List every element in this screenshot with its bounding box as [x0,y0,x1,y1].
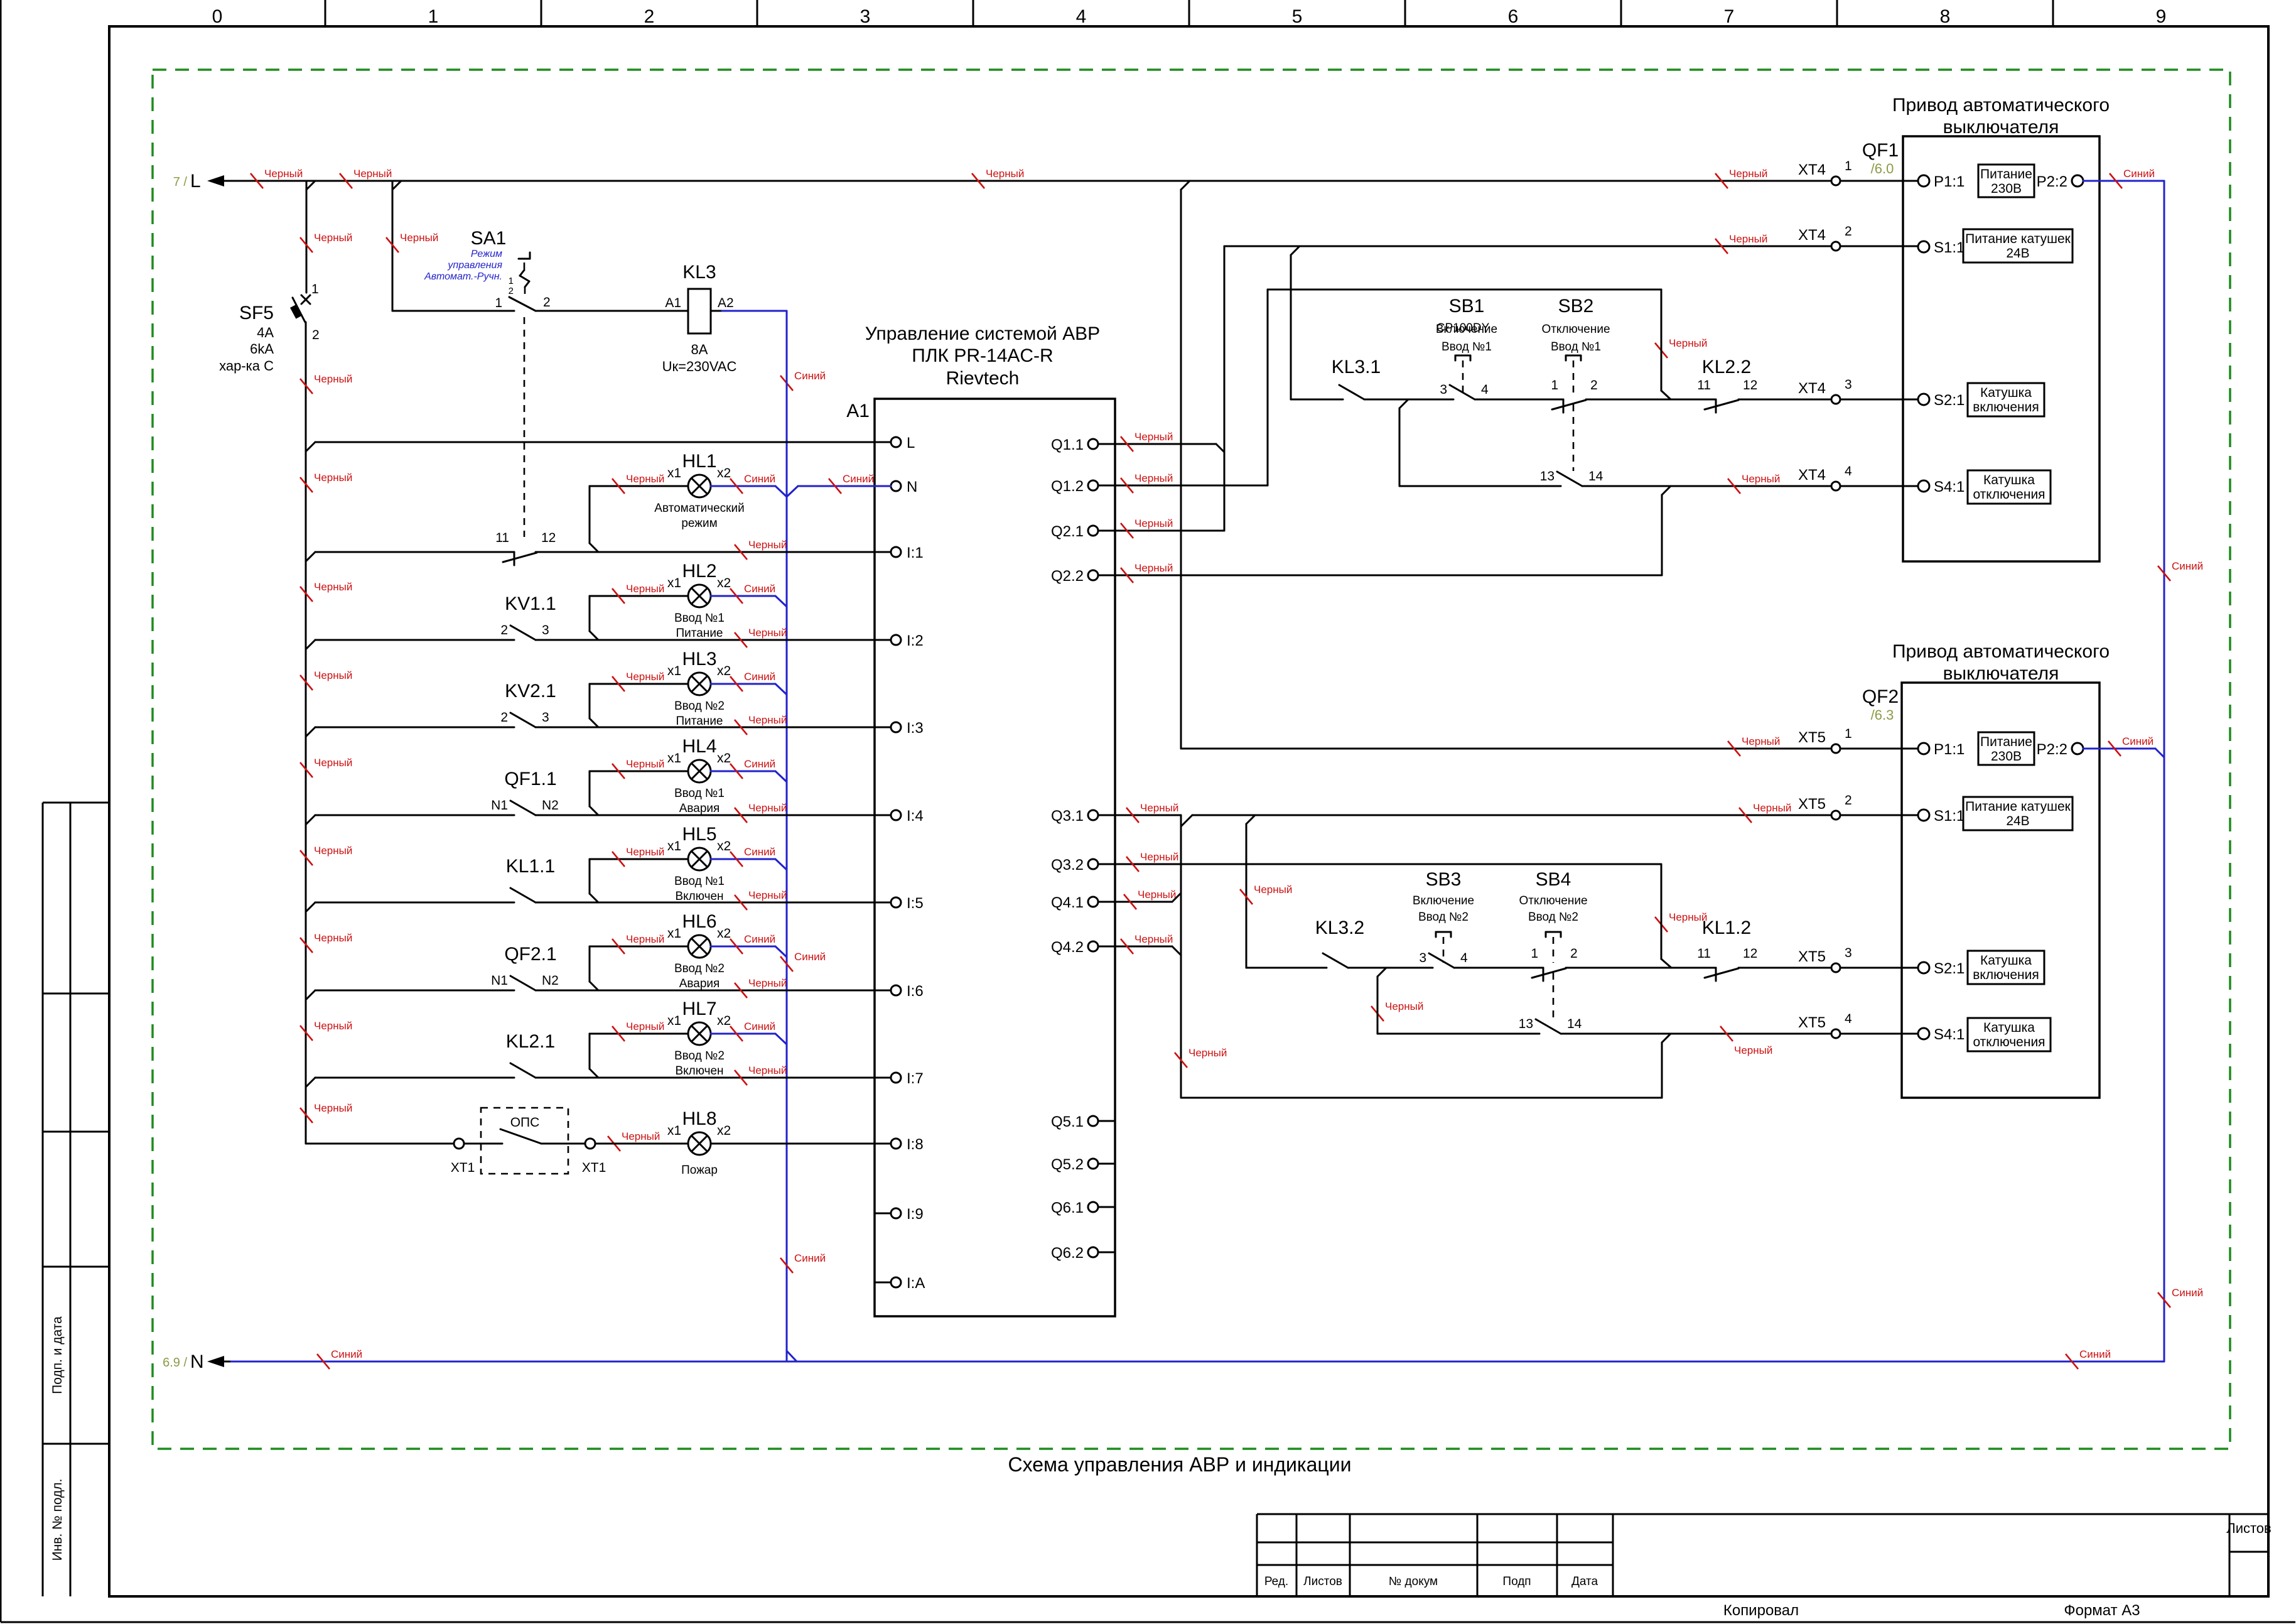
svg-text:1: 1 [1551,378,1558,392]
breaker drive QF2 box [1862,683,2099,1098]
breaker drive QF1 box [1862,136,2099,561]
svg-text:Синий: Синий [2172,560,2203,572]
PLC pin Q5.1 [1051,1113,1115,1130]
wire HL1 branch [590,486,891,552]
wire label Черный before XT5:2 [1739,802,1791,823]
svg-text:L: L [907,435,915,452]
wire XT4:1 to QF1 [1840,180,1918,182]
wire XT4:2 to QF1 [1840,246,1918,247]
QF2 pin P1:1 [1918,741,1965,758]
svg-text:Черный: Черный [748,1064,787,1076]
svg-text:14: 14 [1567,1017,1582,1031]
svg-text:Черный: Черный [626,473,664,485]
svg-text:2: 2 [1590,378,1598,392]
svg-text:А1: А1 [665,296,681,310]
terminal XT4:1 [1798,159,1852,185]
svg-text:Листов: Листов [1303,1575,1342,1588]
wire lower loop x=1881 y=1748 x=2647 [1181,815,1671,1098]
contact KL3.2 [1315,918,1364,968]
wire SB3 to SB4 [1454,967,1543,969]
wire Q2.1 row [1098,530,1224,532]
svg-text:хар-ка С: хар-ка С [219,358,274,374]
svg-text:x1: x1 [667,926,681,941]
wire I row y=1298 [306,815,891,824]
contact SA1 aux (11-12) [495,531,556,565]
wire label Черный on I row y=1298 [735,802,787,823]
wire label Черный on HL3 row [612,671,664,691]
svg-text:Ввод №2: Ввод №2 [674,700,725,713]
wire KL1.2 to XT5:3 [1738,967,1831,969]
svg-text:Синий: Синий [744,583,775,595]
svg-text:3: 3 [1845,946,1852,960]
svg-text:Включение: Включение [1436,323,1497,336]
svg-text:управления: управления [447,260,502,271]
wire HL6 branch [590,946,787,990]
svg-text:x1: x1 [667,664,681,678]
svg-text:Черный: Черный [314,232,352,244]
wire label Черный on riser x=1985 [1240,884,1292,904]
svg-text:N1: N1 [491,798,508,813]
svg-text:3: 3 [860,6,871,27]
svg-text:Черный: Черный [353,168,392,180]
svg-text:QF2: QF2 [1862,686,1899,707]
wire label Черный on Q4.1 row [1124,889,1176,909]
contact KL2.1 (-) [506,1031,555,1078]
svg-text:1: 1 [1845,727,1852,741]
wire label Синий on HL5 row [730,846,775,867]
terminal XT5:1 [1798,727,1852,753]
contact SB4 13-14 [1519,1017,1582,1034]
svg-text:7: 7 [1724,6,1735,27]
svg-text:Авария: Авария [679,977,720,990]
wire HL3 branch [590,684,787,727]
svg-text:Катушка: Катушка [1980,386,2032,400]
svg-text:P2:2: P2:2 [2037,741,2067,758]
wire SA1 riser x=625 [392,181,394,311]
PLC pin Q3.2 [1051,857,1098,874]
wire QF2 P2:2 to blue riser [2083,749,2164,757]
svg-text:Синий: Синий [744,933,775,945]
svg-text:Синий: Синий [331,1348,362,1360]
wire XT4:4 to QF1 [1840,485,1918,487]
PLC pin I:9 [875,1206,924,1223]
svg-text:Rievtech: Rievtech [946,368,1020,389]
PLC pin Q5.2 [1051,1156,1115,1173]
QF1 pin S4:1 [1918,479,1965,495]
svg-text:I:4: I:4 [907,808,924,825]
wire label Черный on HL1 row [612,473,664,494]
PLC pin Q6.1 [1051,1199,1115,1216]
wire I row y=879 [306,552,891,561]
svg-text:I:7: I:7 [907,1070,924,1087]
svg-text:Черный: Черный [1135,517,1173,529]
svg-text:HL6: HL6 [682,911,716,932]
svg-text:Синий: Синий [744,671,775,683]
svg-text:HL1: HL1 [682,451,716,472]
left trim strip cells [43,803,109,1596]
svg-text:N: N [907,479,917,495]
wire label Черный before XT5:1 [1728,735,1780,756]
svg-text:P1:1: P1:1 [1934,173,1965,190]
wire label Черный on HL2 row [612,583,664,604]
wire N bus vertical x=1253 (blue) [786,311,788,1361]
svg-text:Ввод №2: Ввод №2 [1418,911,1469,924]
svg-text:Питание катушек: Питание катушек [1965,799,2071,814]
fire alarm contact OPS (dashed box) [481,1108,568,1174]
svg-text:x1: x1 [667,1014,681,1028]
wire OPS to XT1 right [541,1143,585,1145]
svg-text:4А: 4А [257,325,274,340]
svg-text:Ввод №1: Ввод №1 [674,787,725,800]
svg-text:XT1: XT1 [451,1161,475,1175]
button SB3 [1413,869,1474,968]
title block table [1257,1514,2268,1596]
svg-text:230В: 230В [1991,749,2022,764]
PLC pin I:3 [891,720,924,737]
svg-text:режим: режим [681,517,717,530]
svg-text:Q1.2: Q1.2 [1051,478,1084,495]
svg-text:Q4.1: Q4.1 [1051,894,1084,911]
wire label Черный on I row y=1158 [735,714,787,735]
svg-text:Черный: Черный [626,933,664,945]
svg-text:XT4: XT4 [1798,161,1826,178]
mechanical link dashed SB2 to 13-14 [1573,404,1575,471]
svg-text:XT5: XT5 [1798,729,1826,746]
svg-text:№ докум: № докум [1389,1575,1438,1588]
wire Q4.1 row [1098,893,1181,902]
svg-text:Пожар: Пожар [681,1164,718,1177]
svg-text:x2: x2 [717,751,731,766]
wire label Синий on riser upper [2158,560,2203,581]
wire L input row y=704 [306,442,891,451]
PLC pin I:5 [891,895,924,912]
QF1 pin P2:2 [2037,173,2083,190]
svg-text:XT4: XT4 [1798,227,1826,244]
svg-text:Черный: Черный [314,581,352,593]
wire Q3.1 to XT5:2 row y=1298 [1098,815,1831,826]
svg-text:KL1.2: KL1.2 [1702,918,1751,938]
wire I row y=1577 [306,990,891,999]
QF1 function box Катушка включения [1968,383,2044,416]
svg-text:XT4: XT4 [1798,380,1826,397]
terminal XT1 right [582,1139,606,1175]
svg-text:Синий: Синий [2122,735,2153,747]
svg-text:N1: N1 [491,973,508,988]
wire KL3.2 to SB3 [1348,968,1433,977]
svg-text:Питание: Питание [1980,167,2032,181]
svg-text:выключателя: выключателя [1943,663,2059,684]
svg-text:A1: A1 [846,401,870,421]
svg-text:11: 11 [1697,946,1711,961]
svg-text:Катушка: Катушка [1980,953,2032,968]
svg-text:Q6.2: Q6.2 [1051,1245,1084,1262]
svg-text:Ввод №2: Ввод №2 [1528,911,1578,924]
svg-text:Синий: Синий [744,473,775,485]
svg-text:KL3.2: KL3.2 [1315,918,1364,938]
svg-text:Синий: Синий [744,846,775,858]
svg-text:Режим: Режим [471,249,502,259]
wire label Черный on SF5 bus seg4 [300,581,352,602]
svg-text:Включен: Включен [675,1064,723,1078]
svg-text:SF5: SF5 [239,303,274,323]
svg-text:Черный: Черный [622,1130,660,1142]
svg-text:Синий: Синий [794,1252,826,1264]
svg-text:x2: x2 [717,1014,731,1028]
terminal XT5:3 [1798,946,1852,972]
svg-text:3: 3 [542,623,549,637]
indicator lamp HL4 [667,736,731,815]
wire label Черный on SF5 bus seg8 [300,932,352,953]
QF2 pin S2:1 [1918,960,1965,977]
svg-text:Q1.1: Q1.1 [1051,436,1084,453]
svg-text:S1:1: S1:1 [1934,808,1965,825]
relay coil KL3 [662,262,737,374]
svg-text:Черный: Черный [1135,431,1173,443]
wire label Черный on Q3.2 row [1126,851,1178,872]
PLC pin Q6.2 [1051,1245,1115,1262]
svg-text:HL4: HL4 [682,736,716,757]
svg-text:Черный: Черный [314,1102,352,1114]
svg-text:Черный: Черный [748,539,787,551]
svg-text:12: 12 [541,531,556,545]
wire Q2.2 row to XT4:4 node [1098,495,1662,575]
svg-text:Q2.1: Q2.1 [1051,523,1084,540]
wire label Черный on SF5 bus seg9 [300,1020,352,1041]
svg-text:HL8: HL8 [682,1108,716,1129]
svg-text:Ввод №1: Ввод №1 [1442,340,1492,354]
svg-text:6: 6 [1508,6,1519,27]
svg-text:Ред.: Ред. [1264,1575,1288,1588]
wire SB1 to SB2 [1475,399,1563,401]
svg-text:Черный: Черный [748,977,787,989]
wire label Черный on riser x=2194 [1371,1000,1423,1021]
wire SA1 to KL3 coil [536,310,688,312]
svg-text:3: 3 [542,710,549,725]
wire Q1.2 loop over buttons [1098,290,1671,485]
PLC pin N [891,479,917,495]
svg-text:3: 3 [1419,951,1426,965]
wire L riser x=1881 to XT5:1 [1181,190,1831,749]
svg-text:230В: 230В [1991,181,2022,196]
wire XT4:2 row y=392 [1224,246,1831,255]
terminal XT5:2 [1798,793,1852,820]
svg-text:Синий: Синий [843,473,874,485]
wire label Черный on HL6 row [612,933,664,954]
svg-text:9: 9 [2156,6,2167,27]
svg-text:x2: x2 [717,1123,731,1138]
terminal XT4:3 [1798,377,1852,404]
svg-text:I:8: I:8 [907,1136,924,1153]
svg-text:6kА: 6kА [250,341,274,357]
svg-text:включения: включения [1973,968,2039,982]
svg-text:x1: x1 [667,576,681,590]
svg-text:Включение: Включение [1413,894,1474,907]
wire 13-14 to XT4:4 [1582,486,1831,495]
wire label Черный on SF5 bus seg3 [300,472,352,492]
svg-text:1: 1 [311,282,319,296]
svg-text:x1: x1 [667,466,681,480]
wire label Черный on SA1 riser [386,232,438,252]
indicator lamp HL5 [667,824,731,903]
svg-text:Черный: Черный [1188,1047,1227,1059]
wire label Синий on N wire right [829,473,874,494]
svg-text:SB1: SB1 [1449,296,1485,317]
svg-text:Управление системой АВР: Управление системой АВР [865,323,1100,344]
svg-text:Черный: Черный [1729,168,1767,180]
svg-text:XT5: XT5 [1798,1014,1826,1031]
contact KL3.1 [1332,357,1381,399]
wire label Черный on HL4 row [612,758,664,779]
svg-text:Питание: Питание [676,715,723,728]
svg-text:S4:1: S4:1 [1934,1026,1965,1043]
wire label Черный on SF5 bus seg5 [300,669,352,690]
indicator lamp HL7 [667,999,731,1078]
svg-text:Дата: Дата [1571,1575,1598,1588]
QF1 function box Катушка отключения [1968,470,2051,504]
svg-text:Черный: Черный [1742,473,1780,485]
wire label Черный on HL7 row [612,1020,664,1041]
svg-text:x2: x2 [717,926,731,941]
svg-text:Черный: Черный [626,1020,664,1032]
PLC pin I:2 [891,632,924,649]
svg-text:x2: x2 [717,664,731,678]
svg-text:1: 1 [509,276,514,286]
svg-text:Копировал: Копировал [1723,1602,1799,1619]
wire label Синий on N bus bottom junction [780,1252,826,1273]
wire SB4 to KL1.2 [1566,967,1716,969]
svg-text:SB2: SB2 [1558,296,1594,317]
svg-text:I:A: I:A [907,1275,925,1292]
QF1 pin S2:1 [1918,392,1965,409]
svg-text:Синий: Синий [794,370,826,382]
wire label Черный before XT5:4 [1720,1026,1772,1056]
wire label Черный on I row y=1019 [735,627,787,647]
svg-text:А2: А2 [718,296,734,310]
svg-text:Синий: Синий [744,758,775,770]
wire QF1 P2:2 to blue riser [2083,180,2164,182]
wire blue N return riser x=3447 [2164,181,2165,1361]
PLC pin Q4.1 [1051,894,1098,911]
svg-text:11: 11 [495,531,509,545]
svg-text:Инв. № подл.: Инв. № подл. [50,1479,65,1561]
title block texts [1264,1520,2272,1588]
svg-text:5: 5 [1292,6,1303,27]
wire label Синий on N row right [2066,1348,2111,1369]
indicator lamp HL8 [667,1108,731,1177]
wire 13-14 bottom row y=1646 [1377,977,1539,1034]
svg-text:Ввод №2: Ввод №2 [674,962,725,975]
wire label Синий at QF2 P2:2 [2108,735,2153,756]
QF1 drive header [1892,95,2110,138]
wire HL2 branch [590,596,787,640]
svg-text:HL5: HL5 [682,824,716,845]
svg-text:Подп: Подп [1502,1575,1531,1588]
svg-text:2: 2 [1845,793,1852,808]
svg-text:Черный: Черный [314,845,352,857]
PLC pin I:8 [891,1136,924,1153]
mechanical link dashed SA1 to contact 11-12 [524,317,525,537]
svg-text:Q5.1: Q5.1 [1051,1113,1084,1130]
wire L row y=288 [231,181,1831,190]
svg-text:Q3.1: Q3.1 [1051,808,1084,825]
svg-text:QF1.1: QF1.1 [504,769,556,789]
svg-text:Q5.2: Q5.2 [1051,1156,1084,1173]
svg-text:Ввод №1: Ввод №1 [1551,340,1601,354]
svg-text:I:9: I:9 [907,1206,924,1223]
svg-text:I:3: I:3 [907,720,924,737]
svg-text:Авария: Авария [679,802,720,815]
svg-text:Привод автоматического: Привод автоматического [1892,95,2110,116]
svg-text:KL3: KL3 [682,262,716,283]
PLC title text [865,323,1100,389]
svg-text:Черный: Черный [264,168,303,180]
wire HL7 branch [590,1034,787,1078]
left strip label Инв. № подл. [50,1479,65,1561]
PLC pin I:A [875,1275,925,1292]
wire Q4.2 row [1098,946,1181,955]
wire XT5:3 to QF2 [1840,967,1918,969]
svg-text:Автоматический: Автоматический [654,502,744,515]
svg-text:S2:1: S2:1 [1934,960,1965,977]
terminal XT4:2 [1798,224,1852,251]
svg-text:Черный: Черный [1734,1044,1772,1056]
wire label Черный on Q2.2 row [1121,562,1173,583]
wire 13-14 to XT5:4 [1561,1033,1831,1035]
svg-text:13: 13 [1540,469,1555,484]
svg-text:6.9 /: 6.9 / [163,1356,187,1370]
svg-text:отключения: отключения [1973,487,2045,502]
svg-text:Uк=230VAC: Uк=230VAC [662,359,737,374]
svg-text:L: L [190,171,201,192]
contact QF2.1 (N1-N2) [491,944,559,990]
PLC pin Q2.1 [1051,523,1098,540]
wire label Черный on Q3.1 row [1126,802,1178,823]
svg-text:включения: включения [1973,400,2039,414]
svg-text:Черный: Черный [626,583,664,595]
svg-text:Черный: Черный [626,758,664,770]
wire label Черный on L row seg2 [340,168,392,188]
svg-text:8А: 8А [691,342,708,357]
wire HL4 branch [590,771,787,815]
svg-text:SA1: SA1 [471,228,507,249]
wire label Синий on HL2 row [730,583,775,604]
wire label Черный on riser x=2646 bottom [1655,911,1707,932]
indicator lamp HL3 [667,649,731,728]
svg-text:2: 2 [500,623,508,637]
svg-text:Синий: Синий [2079,1348,2111,1360]
contact KV1.1 (2-3) [500,593,556,640]
wire N bottom row y=2168 (blue) [231,1351,2164,1361]
wire 13-14 row y=774 from KL3.1 node [1399,408,1561,486]
wire label Черный before XT4:2 [1715,233,1767,254]
svg-text:Черный: Черный [748,627,787,639]
svg-text:KL1.1: KL1.1 [506,856,555,877]
wire label Черный on L row seg1 [251,168,303,188]
breaker SF5 [219,282,320,374]
PLC pin L [891,435,915,452]
svg-text:Q3.2: Q3.2 [1051,857,1084,874]
svg-text:7 /: 7 / [173,175,188,189]
svg-text:SB3: SB3 [1426,869,1462,890]
svg-text:2: 2 [509,286,514,296]
mechanical link dashed SB4 to 13-14 [1553,973,1555,1017]
QF2 function box Питание 230В [1978,732,2034,765]
QF2 pin P2:2 [2037,741,2083,758]
wire HL8 to I:8 [595,1143,891,1145]
PLC pin Q4.2 [1051,939,1098,956]
svg-text:1: 1 [1531,946,1538,961]
svg-text:S2:1: S2:1 [1934,392,1965,409]
